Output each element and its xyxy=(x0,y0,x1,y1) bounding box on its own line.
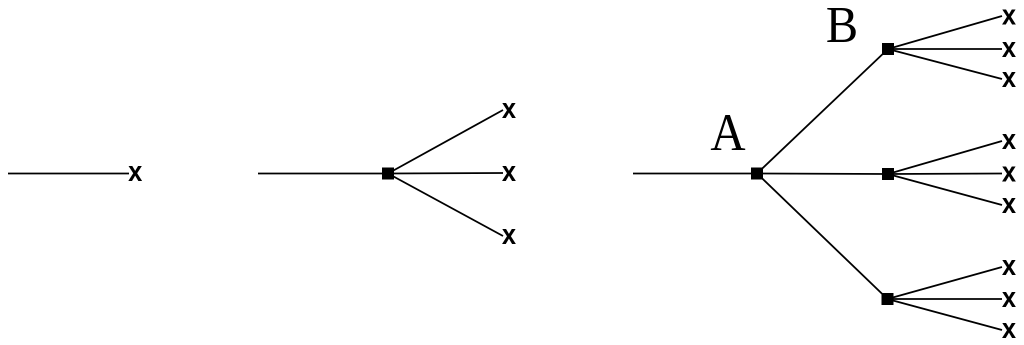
wire tree2 trunk xyxy=(258,173,388,175)
wire middle child branch middle xyxy=(888,173,1002,176)
node tree3 bottom child xyxy=(882,293,894,305)
svg-text:x: x xyxy=(502,154,516,187)
svg-text:x: x xyxy=(502,217,516,250)
svg-text:x: x xyxy=(1002,60,1016,93)
wire A to bottom child xyxy=(757,174,888,300)
wire middle child branch bottom xyxy=(888,174,1002,205)
svg-text:x: x xyxy=(128,155,142,188)
svg-text:x: x xyxy=(502,91,516,124)
wire tree2 branch top xyxy=(388,110,503,174)
node tree2 root xyxy=(382,168,394,180)
wire B branch top xyxy=(888,16,1002,49)
wire bottom child branch bottom xyxy=(888,299,1003,330)
node tree3 middle child xyxy=(882,168,894,180)
svg-text:B: B xyxy=(826,0,858,53)
node A xyxy=(751,168,763,180)
svg-text:x: x xyxy=(1002,186,1016,219)
node B xyxy=(882,43,894,55)
svg-text:x: x xyxy=(1002,248,1016,281)
wire middle child branch top xyxy=(888,141,1002,174)
wire B branch middle xyxy=(888,48,1002,50)
wire B branch bottom xyxy=(888,49,1002,79)
wire bottom child branch top xyxy=(888,267,1003,299)
wire A to middle child xyxy=(757,173,888,176)
wire tree3 trunk xyxy=(633,173,757,175)
wire tree2 branch middle xyxy=(388,172,503,175)
svg-text:x: x xyxy=(1002,311,1016,344)
svg-text:x: x xyxy=(1002,155,1016,188)
svg-text:x: x xyxy=(1002,0,1016,31)
svg-text:A: A xyxy=(710,104,745,162)
svg-text:x: x xyxy=(1002,30,1016,63)
wire tree1 trunk xyxy=(8,173,129,175)
wire bottom child branch middle xyxy=(888,298,1003,300)
wire A to B xyxy=(757,49,888,174)
wire tree2 branch bottom xyxy=(388,174,503,237)
svg-text:x: x xyxy=(1002,122,1016,155)
svg-text:x: x xyxy=(1002,280,1016,313)
